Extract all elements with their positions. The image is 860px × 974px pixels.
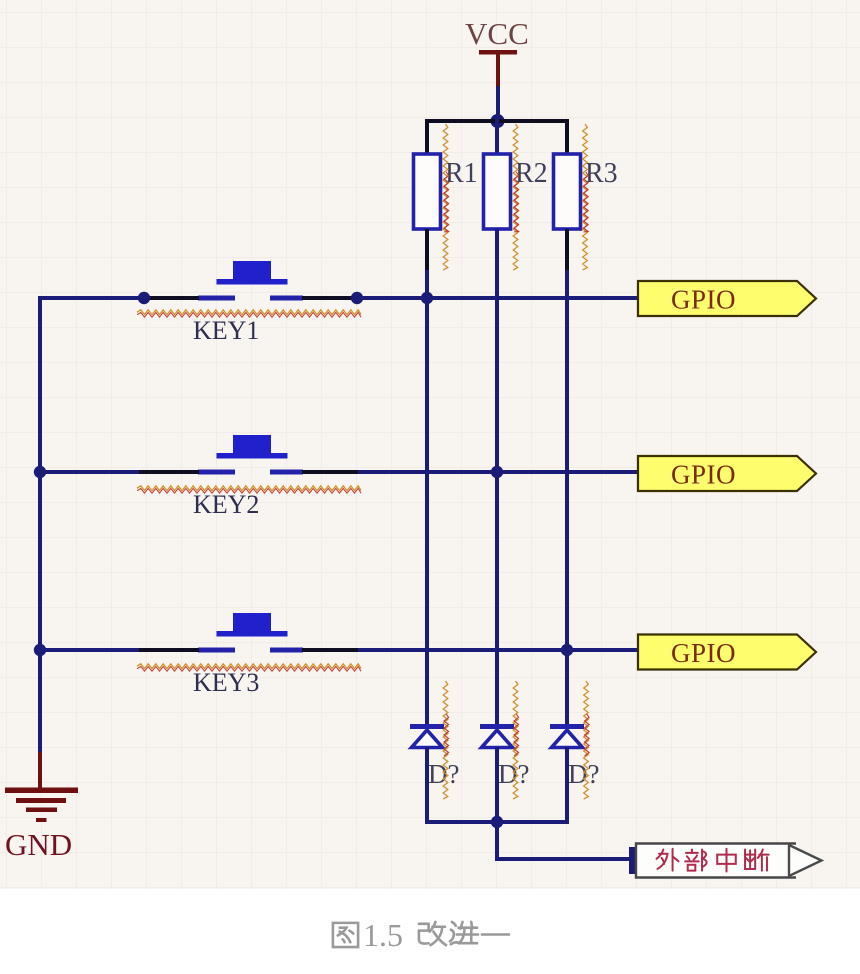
node KEY1 column1 junction — [421, 292, 433, 304]
svg-text:GND: GND — [5, 827, 72, 862]
wire column 2 R2-to-D2 — [495, 270, 499, 727]
no-ERC marker zigzag at D3 — [584, 681, 589, 799]
wire left ground bus — [38, 296, 42, 754]
wire KEY2 row column-to-flag — [358, 470, 640, 474]
port GPIO flag 1 — [638, 281, 816, 316]
svg-text:R3: R3 — [585, 158, 618, 189]
wire KEY2 row switch-to-column — [302, 470, 360, 474]
switch KEY3 right pin — [270, 648, 303, 653]
wire R3 top stub — [565, 119, 569, 156]
wire R1 bottom stub — [425, 229, 429, 272]
wire column 3 R3-to-D3 — [565, 270, 569, 727]
svg-text:D?: D? — [428, 759, 459, 789]
switch KEY2 left pin — [198, 470, 235, 475]
port label 外部中断 — [657, 849, 679, 871]
caption 图1.5 改进一 — [333, 923, 358, 947]
svg-text:KEY2: KEY2 — [193, 490, 259, 519]
svg-text:KEY3: KEY3 — [193, 668, 259, 697]
wire KEY3 row bus-to-switch — [38, 648, 141, 652]
switch KEY1 left pin — [198, 296, 235, 301]
node KEY3 column3 junction — [561, 644, 573, 656]
node KEY2 column2 junction — [491, 466, 503, 478]
wire KEY2 row bus-to-switch — [38, 470, 141, 474]
no-ERC marker zigzag at R1 — [443, 124, 448, 270]
wavy marker under KEY1 — [137, 310, 361, 315]
port GPIO flag 2 — [638, 456, 816, 491]
no-ERC marker zigzag at D2 — [513, 681, 518, 799]
power symbol VCC bar — [479, 50, 517, 55]
ground symbol GND stem — [38, 752, 42, 790]
diode D3 triangle — [552, 730, 583, 748]
wire bottom bus to port vertical — [495, 822, 499, 861]
wire D1 bottom lead — [425, 747, 429, 824]
port GPIO flag 3 — [638, 635, 816, 670]
wire R3 bottom stub — [565, 229, 569, 272]
switch KEY2 right pin — [270, 470, 303, 475]
wire VCC stem — [496, 86, 500, 121]
wavy marker under KEY3 — [137, 664, 361, 669]
node KEY3 left bus junction — [34, 644, 46, 656]
svg-text:R2: R2 — [515, 158, 548, 189]
svg-text:R1: R1 — [445, 158, 478, 189]
wire R1 top stub — [425, 119, 429, 156]
no-ERC marker zigzag at R3 — [583, 124, 588, 270]
diode D1 triangle — [412, 730, 443, 748]
no-ERC marker zigzag at D1 — [443, 681, 448, 799]
ground symbol GND bars — [5, 788, 78, 794]
wire top bus — [425, 119, 569, 123]
wire R2 bottom stub — [495, 229, 499, 272]
resistor R1 — [414, 154, 441, 229]
node VCC junction — [491, 114, 505, 128]
port 外部中断 external interrupt outline — [636, 844, 796, 877]
wire to interrupt port horizontal — [495, 857, 634, 861]
wire column 1 R1-to-D1 — [425, 270, 429, 727]
wavy marker under KEY2 — [137, 486, 361, 491]
node KEY1 left pin junction — [138, 292, 150, 304]
switch KEY3 button cap — [233, 613, 271, 632]
switch KEY1 button cap — [233, 261, 271, 280]
svg-text:VCC: VCC — [465, 16, 529, 51]
wire KEY1 row switch-to-column — [302, 296, 360, 300]
svg-text:GPIO: GPIO — [671, 638, 736, 668]
svg-text:GPIO: GPIO — [671, 460, 736, 490]
no-ERC marker zigzag at R2 — [513, 124, 518, 270]
node KEY2 left bus junction — [34, 466, 46, 478]
wire KEY3 row switch-to-column — [302, 648, 360, 652]
wire diode bottom bus — [425, 820, 569, 824]
diode D1 cathode bar — [410, 724, 444, 729]
wire KEY1 row bus-to-switch — [38, 296, 141, 300]
switch KEY2 button cap — [233, 435, 271, 454]
wire port entry tick — [629, 847, 636, 874]
svg-text:KEY1: KEY1 — [193, 316, 259, 345]
wire D2 bottom lead — [495, 747, 499, 824]
svg-text:GPIO: GPIO — [671, 285, 736, 315]
svg-text:1.5: 1.5 — [363, 917, 403, 953]
resistor R2 — [484, 154, 511, 229]
switch KEY3 left pin — [198, 648, 235, 653]
svg-text:D?: D? — [568, 759, 599, 789]
node bottom bus junction — [491, 816, 503, 828]
wire R2 top stub — [495, 119, 499, 156]
node KEY1 right pin junction — [351, 292, 363, 304]
diode D2 triangle — [482, 730, 513, 748]
diode D2 cathode bar — [480, 724, 514, 729]
resistor R3 — [554, 154, 581, 229]
switch KEY1 right pin — [270, 296, 303, 301]
diode D3 cathode bar — [550, 724, 584, 729]
wire KEY1 row column-to-flag — [358, 296, 640, 300]
wire KEY3 row column-to-flag — [358, 648, 640, 652]
wire D3 bottom lead — [565, 747, 569, 824]
svg-text:D?: D? — [498, 759, 529, 789]
